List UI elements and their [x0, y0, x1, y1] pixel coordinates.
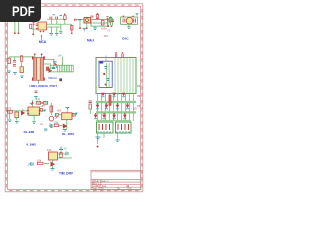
ground — [50, 126, 54, 128]
capacitor C1 — [50, 17, 52, 20]
pin marks — [52, 66, 58, 69]
svg-text:103: 103 — [7, 107, 12, 110]
capacitor marks — [55, 63, 57, 66]
capacitor C21 — [107, 79, 110, 81]
op-amp U4 — [62, 113, 72, 120]
power flag +5V — [66, 108, 70, 110]
resistor R13 — [36, 102, 41, 105]
wire verticals below module — [98, 94, 134, 122]
power flag — [53, 14, 56, 16]
ground — [51, 169, 55, 171]
junction dots row2 — [97, 103, 129, 105]
pin ticks bank1 — [98, 131, 110, 134]
wire — [15, 22, 38, 34]
node pins — [123, 15, 134, 17]
svg-text:104: 104 — [104, 35, 109, 38]
PDF badge — [0, 0, 41, 22]
node pins left — [108, 25, 113, 27]
transformer pins — [32, 56, 45, 80]
ground — [116, 140, 120, 142]
resistor R8 — [109, 95, 111, 106]
node pins — [14, 32, 34, 35]
capacitor C19 — [45, 128, 47, 131]
capacitor C23 — [33, 23, 35, 25]
capacitor C2 — [56, 17, 58, 20]
resistor R15 — [55, 114, 58, 117]
wire — [89, 109, 91, 114]
resistor R13b — [43, 102, 48, 105]
ground — [127, 27, 131, 29]
bus wire — [96, 111, 136, 113]
wire — [7, 100, 51, 121]
capacitor C17 — [112, 20, 114, 22]
svg-text:LMR1_DEBUG_PORT: LMR1_DEBUG_PORT — [30, 84, 58, 88]
resistor R23 — [72, 114, 75, 117]
capacitor C4 — [107, 17, 109, 19]
resistor R16 — [54, 124, 59, 127]
capacitor C7 — [20, 67, 23, 73]
module outline M1 — [96, 58, 136, 94]
power flag — [30, 104, 34, 105]
voltage regulator U2 — [84, 18, 91, 24]
svg-text:5V: 5V — [64, 147, 67, 151]
capacitor C6 — [134, 19, 136, 23]
op-amp U5 — [49, 152, 58, 160]
node VCC — [40, 13, 73, 34]
power flag +5V — [59, 147, 63, 150]
capacitor C8 — [53, 62, 57, 64]
wire — [75, 17, 109, 28]
connector divider — [57, 65, 59, 72]
svg-text:+5: +5 — [40, 123, 43, 126]
resistor R12 — [8, 111, 13, 114]
node — [103, 73, 105, 75]
diode D5 — [122, 93, 126, 96]
resistor R18 — [60, 153, 62, 158]
title text rows — [92, 180, 133, 191]
ground — [50, 34, 54, 36]
diode D12 — [112, 115, 116, 118]
diode D7 — [105, 105, 109, 108]
svg-text:+5V: +5V — [57, 109, 62, 112]
connector label mark — [100, 62, 104, 64]
wire — [98, 134, 118, 145]
transistor Q3 — [51, 162, 56, 167]
resistor R6 — [8, 58, 10, 64]
wire — [9, 55, 55, 85]
inductor L1 — [78, 19, 82, 21]
capacitor C5 — [123, 19, 125, 23]
diode D13 — [123, 115, 127, 118]
crystal Y1 — [126, 17, 133, 24]
capacitor C9 — [35, 91, 38, 93]
capacitor C13 — [66, 152, 68, 156]
ground — [8, 120, 12, 122]
resistor R4 — [109, 18, 111, 23]
wire stub to label — [41, 36, 43, 40]
capacitor C11 — [122, 54, 123, 58]
resistor R9 — [99, 124, 110, 130]
resistor R17 — [89, 104, 91, 109]
connector J1 — [50, 65, 73, 72]
wire — [107, 63, 109, 87]
wire — [106, 56, 133, 94]
resistor R14 — [50, 106, 53, 112]
wire — [108, 16, 138, 27]
wire — [44, 150, 72, 168]
op-amp U1 — [38, 22, 47, 30]
ground — [93, 28, 97, 30]
capacitor C14 polarized — [29, 162, 34, 166]
resistor R20 — [96, 15, 98, 19]
ground — [63, 130, 67, 132]
svg-text:OSC: OSC — [122, 37, 129, 41]
power flag — [76, 113, 78, 115]
capacitor C12 — [15, 112, 19, 118]
ground — [32, 122, 36, 124]
node pins — [6, 102, 43, 112]
transistor Q4 — [21, 111, 25, 116]
ground — [15, 122, 19, 124]
bank 1 outline — [97, 122, 114, 133]
connector pin slots — [60, 65, 72, 72]
svg-text:SWCLK: SWCLK — [48, 76, 57, 80]
polarity mark — [59, 78, 62, 81]
node — [97, 146, 99, 148]
capacitor C18 — [50, 124, 52, 128]
pin ticks bank2 — [117, 131, 129, 134]
svg-text:DL_DRV: DL_DRV — [62, 132, 75, 136]
node — [122, 52, 123, 53]
svg-text:DL-EMI: DL-EMI — [24, 130, 35, 134]
regulator inner mark — [86, 19, 89, 22]
resistor R5 — [20, 56, 22, 62]
bus wire — [96, 120, 131, 122]
wire — [47, 19, 72, 33]
svg-text:+5V: +5V — [40, 105, 45, 108]
transistor Q1 — [104, 67, 107, 69]
svg-text:MAJ: MAJ — [87, 39, 94, 43]
resistor R1 — [64, 16, 66, 20]
resistor R10 — [118, 124, 129, 130]
junction dots row3 — [95, 113, 126, 115]
capacitor C15 — [13, 61, 16, 67]
cathode ticks — [94, 97, 129, 119]
capacitor C20 — [89, 101, 93, 103]
node pins — [79, 13, 109, 29]
resistor R21 — [46, 67, 49, 71]
power flag — [136, 14, 139, 16]
bank 2 outline — [116, 122, 132, 133]
diode D4 — [112, 93, 116, 96]
transistor Q2 — [63, 124, 68, 129]
ground — [13, 73, 17, 75]
diode D3 — [101, 93, 105, 96]
sheet border inner frame — [7, 6, 140, 189]
capacitor C3 — [91, 15, 93, 18]
diode D10 — [94, 115, 98, 118]
svg-text:104: 104 — [47, 148, 52, 152]
transformer T1 — [33, 58, 43, 81]
sub-connector J2 — [99, 61, 112, 87]
svg-text:GD: GD — [133, 108, 137, 111]
ic pins — [27, 110, 40, 114]
svg-text:Date: 2024: Date: 2024 — [92, 188, 104, 191]
capacitor C10 — [115, 54, 116, 58]
diode D11 — [102, 115, 106, 118]
diode D8 — [116, 105, 120, 108]
ground — [20, 76, 24, 78]
capacitor C22 — [36, 24, 39, 26]
ground — [96, 137, 101, 140]
led arrows — [55, 115, 58, 119]
node — [41, 35, 42, 36]
svg-text:TIM_DRV: TIM_DRV — [59, 172, 74, 176]
op-amp U3 — [28, 107, 40, 115]
svg-text:K_BMS: K_BMS — [27, 143, 37, 147]
ground — [59, 32, 63, 34]
pin marks top — [55, 63, 57, 65]
diode D1 — [49, 69, 53, 73]
capacitor C16 — [75, 19, 77, 21]
diode D6 — [96, 105, 100, 108]
resistor R3 — [101, 20, 104, 25]
wire — [46, 57, 63, 69]
svg-text:UA: UA — [58, 53, 62, 57]
wire — [59, 110, 76, 129]
svg-text:Y1: Y1 — [107, 30, 111, 33]
ground — [55, 34, 59, 36]
node — [36, 28, 38, 30]
resistor R24 — [30, 24, 32, 28]
ground — [7, 71, 11, 73]
bus wire — [96, 101, 136, 103]
sheet border grid ticks — [6, 5, 142, 190]
ground — [83, 28, 87, 31]
ground — [107, 20, 110, 21]
resistor R22 — [40, 109, 42, 112]
svg-text:MCU: MCU — [39, 40, 47, 44]
node — [115, 52, 116, 53]
node — [105, 84, 107, 86]
LED D7 — [49, 116, 54, 121]
resistor R19 — [38, 162, 44, 164]
svg-text:10k: 10k — [37, 159, 42, 163]
sheet border outer frame — [5, 4, 143, 192]
node pins top — [34, 53, 43, 55]
power flag — [60, 15, 63, 17]
title block outline — [91, 170, 141, 190]
power flag — [44, 110, 47, 112]
resistor R2 — [71, 26, 73, 31]
svg-text:470: 470 — [36, 99, 41, 102]
ground — [34, 97, 38, 99]
diode D9 — [126, 105, 130, 108]
